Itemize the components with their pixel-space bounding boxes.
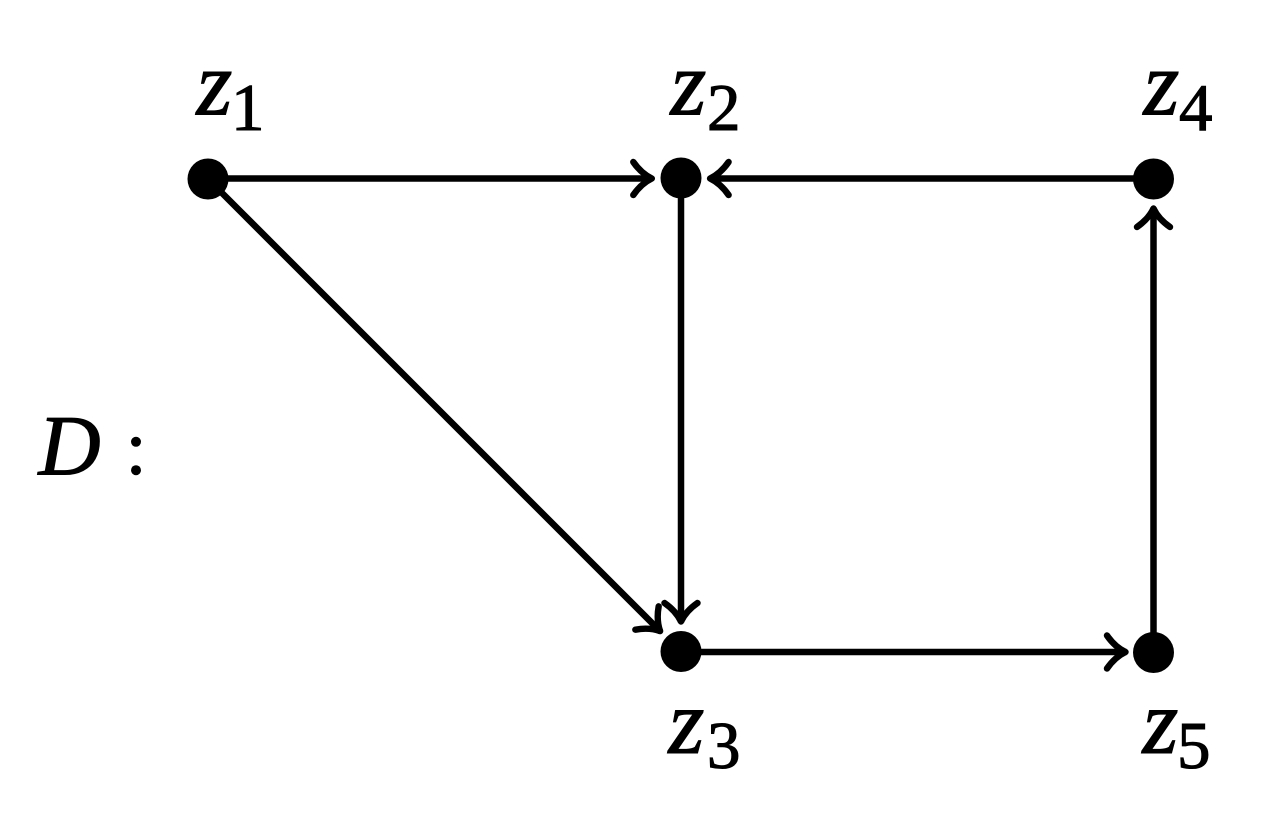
svg-text:2: 2	[707, 71, 741, 145]
svg-text:D: D	[38, 398, 101, 494]
svg-text:z: z	[667, 671, 705, 773]
svg-text:z: z	[669, 33, 707, 135]
svg-text:z: z	[1141, 671, 1179, 773]
svg-text:z: z	[195, 33, 233, 135]
svg-text:5: 5	[1177, 709, 1211, 783]
svg-text:z: z	[1142, 33, 1180, 135]
svg-text:3: 3	[707, 709, 741, 783]
svg-text:1: 1	[231, 71, 265, 145]
svg-text:4: 4	[1179, 71, 1213, 145]
